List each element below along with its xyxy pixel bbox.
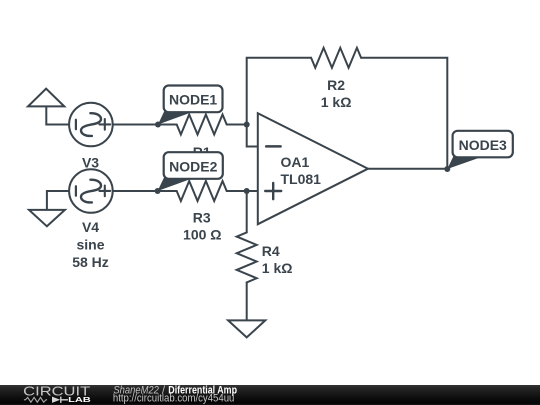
svg-text:58 Hz: 58 Hz xyxy=(72,254,109,270)
wire: junction down to R4 xyxy=(246,191,248,232)
V4 plus sign xyxy=(99,186,110,197)
footer watermark bar xyxy=(0,385,540,405)
svg-text:R4: R4 xyxy=(262,243,280,259)
svg-text:sine: sine xyxy=(76,237,104,253)
voltage source V3 circle xyxy=(69,103,113,147)
wire: R2 right to output riser xyxy=(361,58,447,169)
svg-text:TL081: TL081 xyxy=(281,171,322,187)
svg-text:1 kΩ: 1 kΩ xyxy=(262,260,293,276)
svg-text:V3: V3 xyxy=(82,155,99,171)
junction dot inverting xyxy=(244,122,250,128)
wire: R1 right lead to inverting junction xyxy=(227,124,247,126)
svg-text:OA1: OA1 xyxy=(281,154,310,170)
wire: R4 bottom to ground xyxy=(246,282,248,320)
V3 plus sign xyxy=(99,119,110,130)
op-amp inverting input minus sign xyxy=(266,145,280,148)
wire: R3 right lead to non-inverting junction xyxy=(227,190,258,192)
svg-text:V4: V4 xyxy=(82,219,99,235)
wire: V+ flag stem to V3 source xyxy=(46,107,69,125)
op-amp non-inverting input plus sign xyxy=(265,183,281,199)
node flag NODE3 pointer xyxy=(447,153,480,169)
wire: V4 minus to ground xyxy=(47,191,69,210)
V4 sine glyph xyxy=(81,180,101,203)
wire: op-amp output to NODE3 xyxy=(368,168,447,170)
V+ flag (up triangle) xyxy=(28,89,64,107)
svg-text:NODE1: NODE1 xyxy=(169,92,217,108)
ground (left of V4) xyxy=(29,210,65,226)
svg-text:R2: R2 xyxy=(327,77,345,93)
svg-text:NODE2: NODE2 xyxy=(169,158,217,174)
resistor R2 xyxy=(311,48,361,68)
svg-text:1 kΩ: 1 kΩ xyxy=(321,94,352,110)
svg-text:100 Ω: 100 Ω xyxy=(183,227,221,243)
junction dot NODE2 xyxy=(155,188,161,194)
V3 minus bar xyxy=(75,120,77,130)
junction dot NODE3 / output xyxy=(444,166,450,172)
resistor R1 xyxy=(177,115,227,135)
wire: feedback left riser to R2 xyxy=(247,58,311,125)
node flag NODE1 pointer xyxy=(158,108,191,125)
node flag NODE2 box xyxy=(164,152,223,179)
svg-text:LAB: LAB xyxy=(68,395,91,404)
junction dot NODE1 xyxy=(155,122,161,128)
wire: V4 source to R3 left xyxy=(113,190,177,192)
svg-text:R3: R3 xyxy=(193,210,211,226)
wire: V3 source to R1 left xyxy=(113,124,177,126)
resistor R4 (vertical) xyxy=(237,232,257,282)
svg-text:NODE3: NODE3 xyxy=(459,137,507,153)
node flag NODE2 pointer xyxy=(158,174,191,191)
ground (below R4) xyxy=(228,320,265,337)
node flag NODE3 box xyxy=(453,131,513,158)
junction dot non-inverting xyxy=(244,188,250,194)
V3 sine glyph xyxy=(81,113,101,136)
resistor R3 xyxy=(177,181,227,201)
op-amp OA1 body xyxy=(258,113,368,224)
V4 minus bar xyxy=(75,186,77,196)
voltage source V4 circle xyxy=(69,169,113,213)
wire: inverting input branch xyxy=(247,125,258,147)
svg-text:http://circuitlab.com/cy454uu: http://circuitlab.com/cy454uu xyxy=(113,393,234,405)
node flag NODE1 box xyxy=(164,86,223,113)
CircuitLab logo diode symbol xyxy=(52,397,60,403)
CircuitLab logo resistor zigzag xyxy=(24,397,47,402)
